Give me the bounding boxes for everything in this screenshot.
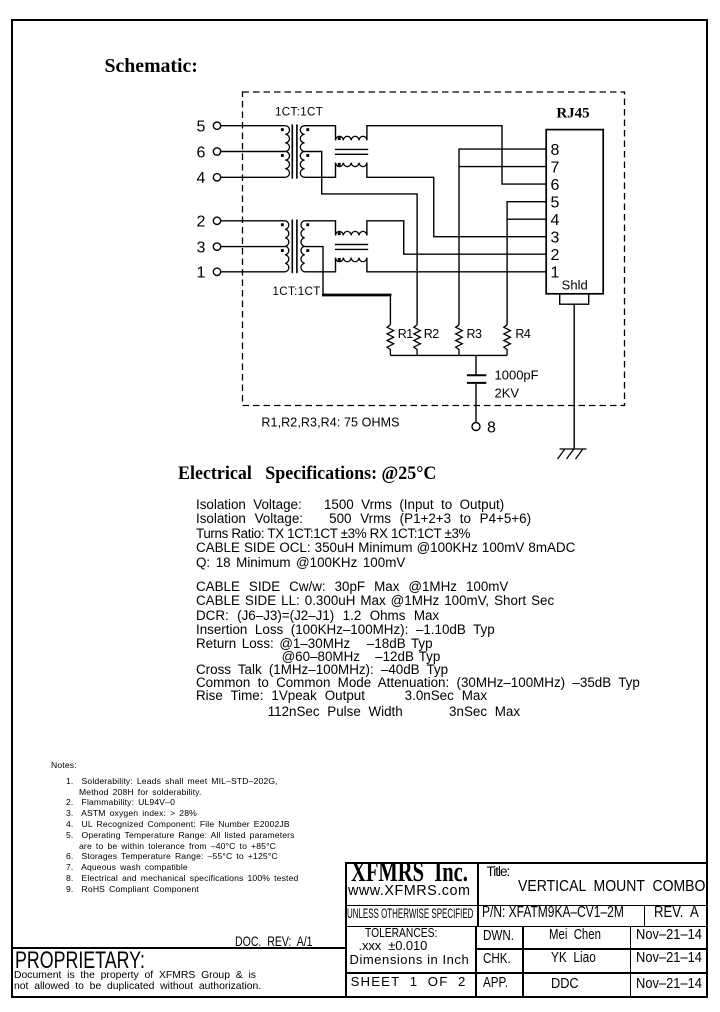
resistor R1 [387,325,394,356]
svg-text:1000pF: 1000pF [495,368,539,383]
transformer T2 secondary winding [301,221,305,272]
svg-text:4: 4 [197,170,206,187]
terminal circle 8 [472,423,480,431]
shield wire to ground [573,304,575,449]
wire T1 secondary bottom to choke L1 bottom [305,163,336,178]
choke L1 top winding [336,136,367,140]
terminal circle pin 3 [213,243,220,250]
wire T2 secondary top to choke L2 [305,221,336,236]
chassis ground [558,449,587,459]
svg-text:R3: R3 [467,327,483,341]
wire pin5 to T1 primary top [221,125,286,127]
wire choke L1 top to RJ45 pin 6 [367,126,546,184]
capacitor C1 bottom lead to terminal 8 [475,384,477,423]
svg-text:1: 1 [551,265,560,282]
svg-text:8: 8 [487,420,496,437]
RJ45 shield tab [560,294,589,304]
svg-text:1: 1 [197,265,206,282]
proprietary text [15,948,145,974]
svg-text:R2: R2 [424,327,440,341]
svg-text:1CT:1CT: 1CT:1CT [275,107,323,119]
svg-text:R1: R1 [398,327,414,341]
svg-text:5: 5 [551,195,560,212]
choke L1 core [335,149,368,154]
choke L2 phase dots [338,232,341,261]
svg-text:2: 2 [197,214,206,231]
svg-text:R4: R4 [515,327,531,341]
heading Electrical Specifications [178,464,436,484]
wire RJ45 pin 4 [507,218,546,220]
transformer T1 primary winding [285,126,289,178]
svg-text:4: 4 [551,212,560,229]
choke L2 top winding [336,231,367,235]
svg-text:5: 5 [197,119,206,136]
notes [51,761,77,770]
terminal circle pin 1 [213,268,220,275]
terminal circle pin 2 [213,217,220,224]
wire RJ45 pin 5 to R4 [507,202,546,325]
choke L2 core [335,245,368,250]
svg-text:3: 3 [197,239,206,256]
capacitor C1 plates [467,375,486,383]
wire RJ45 pin 7 [459,166,546,168]
transformer T1 core [292,124,297,178]
wire pin3 to T2 primary center tap [221,246,286,248]
wire T1 center tap to R2 [305,152,418,325]
wire pin2 to T2 primary top [221,220,286,222]
resistor R2 [414,325,421,356]
svg-text:6: 6 [551,177,560,194]
svg-text:8: 8 [551,142,560,159]
T1 phase dots [281,128,309,157]
svg-text:3: 3 [551,230,560,247]
transformer T1 secondary winding [300,126,304,178]
svg-text:1CT:1CT: 1CT:1CT [273,286,321,298]
T2 phase dots [281,223,309,252]
resistor bottom rail [390,354,507,356]
svg-text:7: 7 [551,159,560,176]
svg-text:Shld: Shld [562,278,588,293]
svg-text:2KV: 2KV [495,386,520,401]
wire pin6 to T1 primary center tap [221,151,286,153]
dashed enclosure box [243,92,625,406]
choke L2 bottom winding [336,258,367,262]
terminal circle pin 4 [213,174,220,181]
svg-text:6: 6 [197,144,206,161]
DOC REV [235,934,313,949]
resistor R3 [456,325,463,356]
title block text [351,857,468,887]
wire T2 secondary bottom to choke L2 bottom [305,258,336,272]
choke L1 bottom winding [336,163,367,167]
wire choke L2 top to RJ45 pin 2 [367,221,546,254]
transformer T2 primary winding [285,221,289,272]
terminal circle pin 5 [213,122,220,129]
wire T2 center tap to R1 (thick segment) [305,247,323,295]
terminal circle pin 6 [213,148,220,155]
resistor R4 [504,325,511,356]
wire T1 secondary top to choke L1 [305,126,336,141]
svg-text:R1,R2,R3,R4: 75 OHMS: R1,R2,R3,R4: 75 OHMS [261,416,399,430]
RJ45 connector box [546,130,603,294]
wire pin4 to T1 primary bottom [221,176,286,178]
wire RJ45 pin 8 to R3 [459,149,546,325]
schematic drawing [0,0,720,470]
wire choke L1 bottom to RJ45 pin 3 [367,163,546,237]
wire pin1 to T2 primary bottom [221,271,286,273]
electrical spec lines [196,498,504,512]
choke L1 phase dots [338,137,341,166]
title block lines [345,862,708,864]
svg-text:2: 2 [551,247,560,264]
capacitor C1 top lead [475,355,477,374]
proprietary box top line [11,947,345,949]
svg-text:RJ45: RJ45 [556,106,589,122]
wire choke L2 bottom to RJ45 pin 1 [367,258,546,272]
transformer T2 core [292,220,297,274]
heading Schematic: [105,56,198,77]
